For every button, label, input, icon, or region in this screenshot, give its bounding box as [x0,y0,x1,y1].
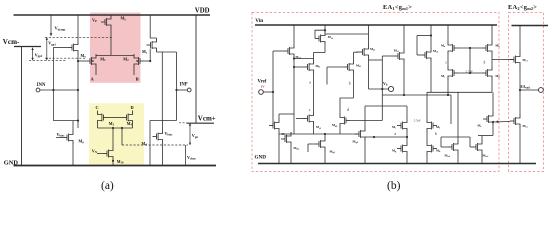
transistor Mn1 (cascode left) [448,66,458,80]
transistor Mt1 (diode PMOS) [315,32,325,46]
wire: Mtr source down [492,126,494,136]
svg-text:Vgn: Vgn [192,133,199,139]
wire: Vb stub [369,88,389,90]
wire: Mb1 source down [293,58,295,134]
transistor M2 (input PMOS right) [134,54,144,68]
wire: EAout stub [520,89,539,91]
wire: Mr1 drain up [406,106,408,119]
transistor Mtr (upper right NMOS) [483,112,493,126]
dashed gate line to M1 [45,57,86,59]
svg-text:M5: M5 [121,16,127,22]
Vcm+ node bar [187,122,215,124]
transistor M5 (tail PMOS, pink) [101,15,111,29]
wire: INP branch down [176,90,178,121]
transistor M1 (input PMOS left) [86,54,96,68]
wire: cascode gate tie [458,72,482,74]
Vdcmp annotation arrow from VDD [50,15,52,35]
transistor Ms2 [421,48,431,62]
svg-text:VP: VP [92,17,97,23]
transistor Mm1 (mirror mid left) [304,112,314,126]
GND rail (b) [258,163,536,165]
wire: M7 gate bias link [53,47,68,49]
wire: M9 drain up [72,121,74,131]
wire: gate feed to M1 [78,60,86,62]
Vdcm annotation stub [185,145,187,166]
transistor Mq2 (bottom left NMOS) [281,132,291,146]
wire: Ms1 gate feed [382,55,394,57]
Vgn annotation arrow [189,123,191,145]
svg-text:EA2<gm2>: EA2<gm2> [508,4,537,11]
wire: Vref to input [263,91,273,93]
wire: Mc drain to INP [176,52,178,90]
transistor Mb1 (EA1 left NMOS) [284,44,294,58]
wire: link bus y92 [427,91,492,93]
wire: upper link to Mr1 [365,105,407,107]
svg-text:VDD: VDD [195,7,210,14]
transistor M4 (yellow right) [123,111,133,125]
wire: M7 source down / INN branch vertical [77,55,79,129]
svg-text:b: b [435,132,437,136]
wire: Mt1 to rail [324,25,326,32]
wire: Mw1 drain up [457,92,459,140]
wire: Mv2 source to GND [426,156,428,164]
wire: EA2 supply drop [519,26,521,53]
wire: Mq3 source to GND [324,151,326,164]
GND rail [14,165,217,167]
wire: Mw1 source to GND [457,154,459,164]
wire: bus to M10 [112,128,114,147]
wire: Mq4 source to GND [364,141,366,164]
wire: VN gate stub [97,153,103,155]
wire: M7 drain to VDD [77,15,79,41]
wire: Mm2 source down [339,128,341,135]
dashed link to Vcm+ bar [179,122,187,124]
EA1 dashed boundary box [252,13,499,172]
Vgp1 annotation arrow [46,37,48,60]
wire: Mm2 gate to feed vertical [350,120,382,122]
transistor Mi1 (input pair left) [304,60,314,74]
svg-text:D: D [131,105,134,110]
wire: Mp1 drain down [447,55,449,66]
wire: into EA2 gate [493,121,510,124]
common source bus [98,127,133,129]
wire: M3 source down [97,125,99,129]
wire: Mo1 source to rail [368,25,370,45]
wire: gate tie M3-M4 [108,117,123,119]
svg-text:Md: Md [142,141,148,147]
Vref terminal [259,90,264,95]
wire: Ms2 source down [430,62,432,92]
svg-text:EAout1: EAout1 [521,85,532,90]
wire: Mr1 down [406,133,408,142]
wire: link bar down to GND [149,121,151,166]
shaded region: second-stage pair (yellow) [89,103,144,164]
wire: Mt1 diode loop [315,30,325,38]
wire: quad center tie [469,48,471,73]
wire: gate tie Mp1-Mp2 [458,47,482,49]
VDD rail [14,14,211,16]
svg-text:b: b [349,82,351,86]
wire: M9 gate stub [56,137,63,139]
right rail branch [195,15,197,123]
transistor Mp1 (2nd stage PMOS left) [448,41,458,55]
transistor Ms1 [394,49,404,63]
svg-text:INP: INP [180,83,188,88]
svg-text:Vin: Vin [255,18,263,24]
svg-text:Vcm-: Vcm- [3,38,20,46]
wire: Me1 drain down [519,67,521,115]
transistor M7 (left cascode PMOS) [68,41,78,55]
wire: Mi2 drain up [353,52,355,60]
svg-text:Vgp1: Vgp1 [48,41,56,47]
transistor Mn2 (cascode right) [482,66,492,80]
svg-text:GND: GND [255,155,267,161]
wire: Mb1 drain to Vin rail [293,25,295,44]
transistor Mc (output PMOS) [147,38,157,52]
svg-text:d: d [484,61,486,65]
svg-text:Mc: Mc [142,49,148,55]
Vin rail [255,24,497,26]
wire: M4 source down [132,125,134,129]
Vcm- node bar [14,46,41,48]
Vgp2 annotation arrow [32,48,34,61]
wire: M9 source to GND [72,145,74,166]
EAout terminal [539,88,544,93]
transistor Mq1 (bottom-left bias) [269,119,279,133]
wire: Ms1 drain up to rail [403,25,405,49]
wire: Md drain up to link bar [162,121,164,130]
wire: second stage feed vertical [381,56,383,121]
wire: mirror gate tie stub [326,67,328,85]
wire: M5 drain down to tail [110,29,112,55]
shaded region: first-stage differential pair (pink) [90,13,141,83]
transistor Me2 (EA2 NMOS) [510,114,520,128]
wire: Mo1 drain to Vb [368,59,370,89]
wire: Mq1 source to GND [278,133,280,164]
wire: link bus y95 [382,94,451,96]
svg-text:Vdcmp: Vdcmp [55,26,66,32]
svg-text:(b): (b) [387,180,401,192]
svg-text:C: C [96,105,99,110]
svg-text:M10: M10 [117,159,124,165]
wire: Mv1 source to GND [406,156,408,164]
wire: Mt1 source down [324,46,326,53]
wire: Md source to GND [162,144,164,166]
wire: Mb1 source tie [294,58,314,60]
svg-text:5.7pF: 5.7pF [414,118,421,122]
transistor M3 (yellow left) [98,111,108,125]
transistor Mm2 (mirror mid right) [340,114,350,128]
wire: M10 source to GND [112,161,114,166]
wire: lower-right link bar [150,120,177,122]
wire: Mq3 drain up [324,134,326,137]
EA2 supply rail [512,25,549,27]
wire: INN to branch [40,89,78,91]
transistor Mp2 (2nd stage PMOS right) [482,41,492,55]
transistor Mo1 (V_b output PMOS) [359,45,369,59]
svg-text:M2: M2 [123,56,129,62]
wire: Mtr drain up [492,92,494,112]
transistor Mr1 (row A left) [397,119,407,133]
wire: Vcm- down to GND [21,47,23,166]
svg-text:M9: M9 [79,139,85,145]
wire: feed tap [369,59,383,61]
transistor Mw2 (bias right 2) [472,140,482,154]
dashed bias line (lower) [29,59,66,61]
svg-text:INN: INN [37,83,46,88]
svg-text:1V: 1V [261,85,266,89]
transistor Mi2 (input pair right) [344,60,354,74]
wire: drain link bar [53,120,78,122]
wire: Mb1 gate to bias [273,50,284,52]
wire: Mp2 drain down [491,55,493,66]
wire: bias tap vertical [121,128,123,145]
transistor Md (right bias NMOS) [153,130,163,144]
dashed bias line (upper) [45,36,113,38]
wire: Mw2 link [478,135,493,137]
wire: Mw2 drain up [481,136,483,141]
svg-text:Vdcm: Vdcm [187,155,196,161]
transistor Me1 (EA2 PMOS) [510,53,520,67]
svg-text:B: B [136,77,139,82]
transistor Mr2 (row A right) [427,119,437,133]
svg-text:Vbias: Vbias [57,132,66,138]
wire: Mw2 source to GND [481,154,483,164]
svg-text:Vgp2: Vgp2 [35,52,43,58]
wire: Mw2 gate tie [469,137,471,147]
wire: mm bus [279,133,359,135]
wire: M2 gate to Mc gate net [144,60,150,62]
tail bus of differential pair [96,54,134,56]
wire: Mq4 drain stub [364,106,366,127]
svg-text:Vbias: Vbias [165,131,174,137]
wire: bias tie vertical [450,95,452,124]
wire: Mr2 down [426,133,428,142]
wire: Mm1 source down [313,126,315,135]
Vb terminal [388,86,393,91]
wire: diode bias bus [325,33,369,35]
wire: Mq3 gate [308,143,315,145]
wire: Mq1 drain up [278,114,280,119]
wire: Mi1 source down [313,74,315,112]
transistor M10 (tail NMOS, yellow) [103,147,113,161]
svg-text:Vcm+: Vcm+ [198,115,216,123]
wire: Me1 gate feed [492,59,514,61]
M1 gate arrow [91,60,94,62]
wire: Me2 source to GND [519,128,521,164]
transistor M9 (left bias NMOS) [63,131,73,145]
INP terminal [187,88,191,92]
INN terminal [36,88,40,92]
wire: Mc source to VDD [150,15,156,38]
wire: Mi1 drain up [313,53,315,61]
vertical net to lower right branch [161,52,163,121]
wire: Ms2 drain to rail [430,25,432,48]
wire: Mi2 source down [353,74,355,98]
wire: left bias vertical [272,51,274,126]
dashed bias line to Vgn/Vdcm [122,144,188,146]
transistor Mq4 (bottom NMOS) [355,127,365,141]
wire: M1 drain to node A [95,68,97,75]
wire: Mq2 drain up [290,132,292,134]
transistor Mv1 (row B left) [397,142,407,156]
wire: Mw gate bias bus [441,136,470,138]
wire: M2 drain to node B [133,68,135,75]
svg-text:Vb: Vb [383,81,388,87]
wire: Mp1 source to rail [447,25,449,41]
wire: Mp2 source to rail [491,25,493,41]
svg-text:EA1<gm1>: EA1<gm1> [383,4,412,11]
wire: Mn2 down [491,80,493,92]
wire: INP stub [177,89,188,91]
transistor Mq3 (bottom center NMOS) [315,137,325,151]
wire: Mn1 down [447,80,449,95]
transistor Mw1 (bias right 1) [448,140,458,154]
wire: Ms1 source down [403,63,405,95]
wire: Mq2 source to GND [290,146,292,164]
wire: mm gates tie [296,118,305,120]
EA2 dashed boundary box [509,13,544,172]
wire: Mq4 node to quad [365,136,407,138]
wire: Mo1 gate [356,51,359,53]
M10 source dot [112,160,114,162]
svg-text:M1: M1 [100,56,106,62]
svg-text:M4: M4 [127,121,133,127]
svg-text:M3: M3 [109,121,115,127]
transistor Mv2 (row B right) [427,142,437,156]
wire: Mc drain link [157,51,177,53]
wire: Mr2 drain up [426,92,428,118]
M2 gate arrow [137,60,140,62]
svg-text:VN: VN [92,148,98,154]
svg-text:d: d [347,108,349,112]
wire: Mi1 gate feed [294,66,304,68]
wire: Mc gate diode tie [149,49,151,62]
svg-text:GND: GND [4,159,19,166]
wire: Ms2 diode loop [417,54,421,56]
svg-text:(a): (a) [101,180,114,192]
